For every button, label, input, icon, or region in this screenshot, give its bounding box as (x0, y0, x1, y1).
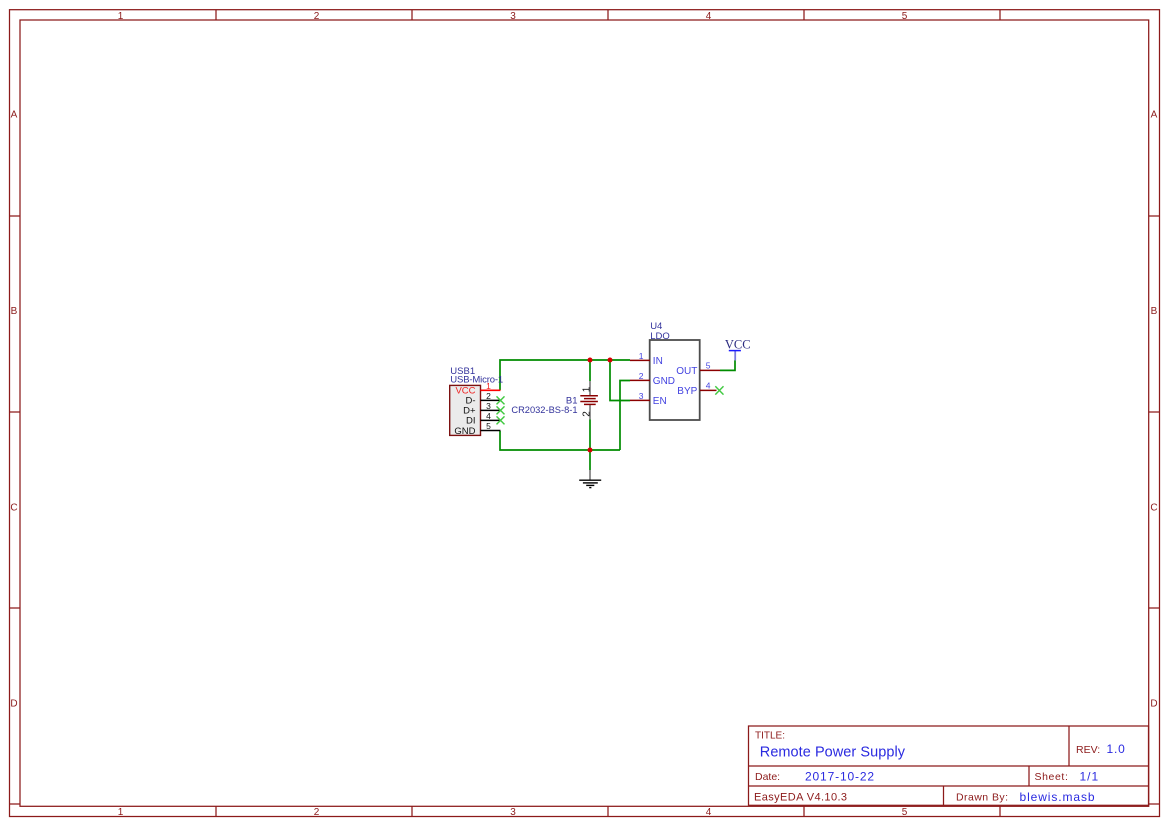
svg-text:2: 2 (582, 411, 593, 417)
svg-text:EasyEDA V4.10.3: EasyEDA V4.10.3 (754, 792, 847, 804)
no-connect flag pin 3 (497, 406, 505, 414)
junction node IN rail a (588, 358, 593, 363)
pin 3 EN of U4 (630, 391, 667, 407)
svg-text:4: 4 (706, 11, 712, 22)
svg-text:GND: GND (653, 376, 675, 387)
IC U4 LDO (650, 321, 700, 420)
pin 2 D- of USB1 (465, 391, 500, 407)
svg-text:4: 4 (706, 807, 712, 818)
svg-text:D: D (1150, 699, 1157, 710)
title block (749, 726, 1149, 805)
svg-text:1: 1 (639, 351, 644, 361)
svg-text:1: 1 (118, 807, 124, 818)
svg-text:5: 5 (902, 807, 908, 818)
svg-text:GND: GND (454, 426, 475, 437)
svg-text:1.0: 1.0 (1107, 742, 1126, 756)
pin 4 BYP of U4 (677, 380, 716, 397)
pin 5 OUT of U4 (676, 360, 720, 377)
junction node IN rail b (608, 358, 613, 363)
wire OUT to VCC (720, 360, 735, 370)
pin 4 DI of USB1 (466, 411, 501, 427)
svg-text:CR2032-BS-8-1: CR2032-BS-8-1 (511, 405, 577, 415)
svg-text:Remote Power Supply: Remote Power Supply (760, 745, 906, 761)
svg-text:1: 1 (118, 11, 124, 22)
svg-text:LDO: LDO (650, 331, 670, 342)
svg-text:Sheet:: Sheet: (1035, 771, 1069, 783)
svg-text:2017-10-22: 2017-10-22 (805, 770, 875, 784)
ground symbol (579, 470, 601, 488)
svg-text:A: A (11, 110, 18, 121)
svg-text:5: 5 (902, 11, 908, 22)
svg-text:C: C (1150, 503, 1157, 514)
svg-text:1/1: 1/1 (1080, 770, 1100, 784)
svg-text:Date:: Date: (755, 771, 780, 783)
wire bottom rail (500, 431, 620, 450)
wire VCC top rail (500, 360, 630, 390)
pin 2 GND of U4 (630, 371, 675, 387)
svg-text:3: 3 (486, 401, 491, 411)
svg-text:1: 1 (486, 381, 491, 391)
no-connect flag pin 4 BYP (715, 386, 723, 394)
svg-text:2: 2 (486, 391, 491, 401)
svg-text:1: 1 (582, 386, 593, 392)
svg-text:3: 3 (510, 11, 516, 22)
svg-text:blewis.masb: blewis.masb (1020, 790, 1096, 804)
svg-text:B: B (1151, 306, 1158, 317)
svg-text:3: 3 (639, 391, 644, 401)
pin 1 IN of U4 (630, 351, 663, 367)
pin 5 GND of USB1 (454, 421, 500, 437)
connector USB1 (450, 366, 503, 435)
no-connect flag pin 2 (497, 396, 505, 404)
svg-text:2: 2 (314, 807, 320, 818)
svg-text:C: C (10, 503, 17, 514)
svg-text:USB-Micro-1: USB-Micro-1 (450, 375, 503, 386)
wire battery top (589, 360, 591, 381)
svg-text:Drawn By:: Drawn By: (956, 791, 1008, 803)
pin 1 VCC of USB1 (455, 381, 500, 397)
svg-text:OUT: OUT (676, 366, 697, 377)
junction node GND rail (588, 448, 593, 453)
battery B1 (511, 381, 598, 420)
svg-text:B: B (11, 306, 18, 317)
svg-text:2: 2 (314, 11, 320, 22)
svg-text:EN: EN (653, 396, 667, 407)
wire GND pin branch (620, 381, 630, 451)
no-connect flag pin 4 (497, 416, 505, 424)
svg-text:IN: IN (653, 356, 663, 367)
svg-text:3: 3 (510, 807, 516, 818)
svg-text:5: 5 (486, 421, 491, 431)
wire battery bottom (589, 420, 591, 451)
svg-text:REV:: REV: (1076, 744, 1100, 756)
pin 3 D+ of USB1 (463, 401, 500, 417)
svg-text:BYP: BYP (677, 386, 697, 397)
svg-text:4: 4 (486, 411, 491, 421)
svg-text:4: 4 (706, 380, 711, 390)
svg-text:2: 2 (639, 371, 644, 381)
wire EN branch (610, 360, 630, 401)
svg-text:5: 5 (706, 360, 711, 370)
power flag VCC (725, 338, 751, 361)
svg-text:D: D (10, 699, 17, 710)
wire ground stem (589, 450, 591, 470)
svg-text:A: A (1151, 110, 1158, 121)
svg-text:VCC: VCC (725, 338, 751, 352)
svg-text:TITLE:: TITLE: (755, 731, 785, 742)
